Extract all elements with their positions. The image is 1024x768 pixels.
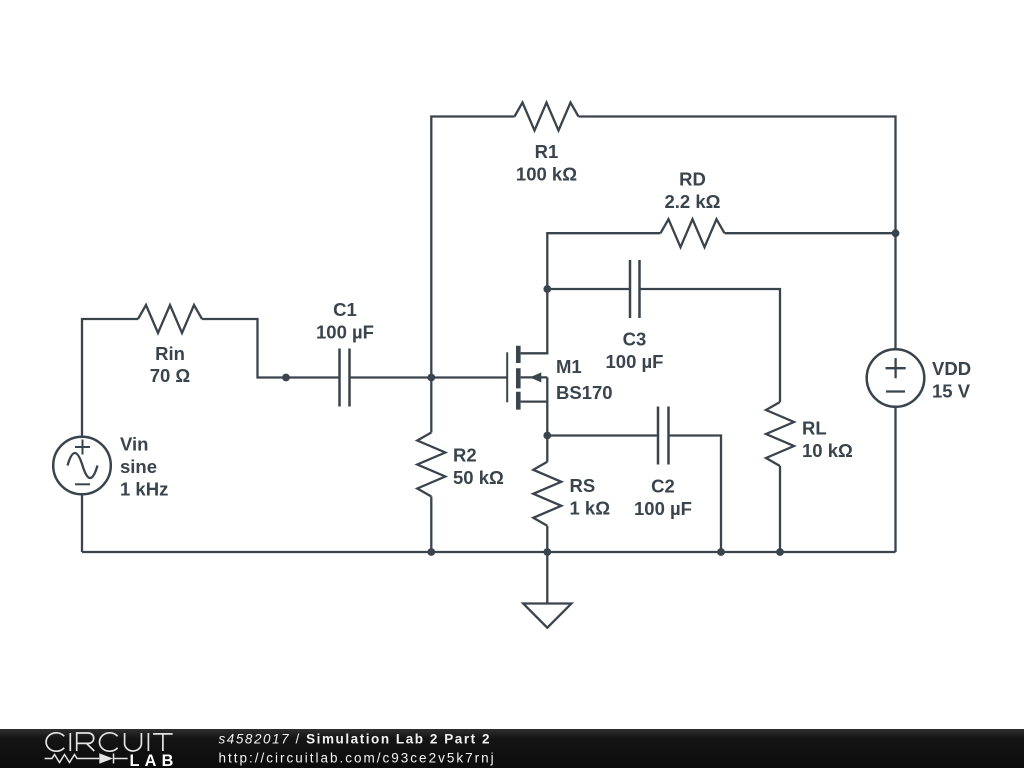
- logo diode triangle: [99, 753, 113, 763]
- transistor M1 body lead: [521, 376, 548, 378]
- svg-text:100 µF: 100 µF: [316, 322, 374, 343]
- Vin sine: [68, 453, 98, 478]
- ground triangle: [523, 604, 571, 628]
- voltage source VDD circle: [867, 349, 925, 407]
- capacitor C2: [658, 407, 669, 465]
- svg-text:Vin: Vin: [120, 434, 148, 455]
- node dot bottom R2: [427, 548, 435, 556]
- svg-text:2.2 kΩ: 2.2 kΩ: [665, 191, 721, 212]
- resistor R2: [417, 433, 445, 497]
- wire right column RD node to VDD: [894, 233, 896, 349]
- node dot C3 left: [543, 285, 551, 293]
- svg-text:C3: C3: [623, 329, 647, 350]
- wire C2 right down to bottom: [669, 436, 722, 553]
- wire source node to C2: [547, 434, 658, 436]
- svg-text:RD: RD: [679, 169, 706, 190]
- svg-text:sine: sine: [120, 456, 157, 477]
- wire RD right lead: [725, 232, 896, 234]
- svg-text:BS170: BS170: [556, 382, 613, 403]
- svg-text:100 µF: 100 µF: [634, 498, 692, 519]
- svg-text:C1: C1: [333, 299, 357, 320]
- svg-text:VDD: VDD: [932, 358, 971, 379]
- svg-text:50 kΩ: 50 kΩ: [453, 467, 504, 488]
- Vin plus: [75, 440, 90, 455]
- wire Rin left column top: [82, 319, 138, 437]
- resistor RS: [533, 462, 561, 526]
- wire C3 right to RL top: [640, 289, 781, 402]
- transistor M1 arrow: [530, 372, 542, 382]
- wire RS bottom lead: [546, 526, 548, 552]
- svg-text:RL: RL: [802, 418, 827, 439]
- wire C3 left lead: [547, 288, 630, 290]
- svg-text:1 kΩ: 1 kΩ: [570, 498, 611, 519]
- node dot source: [543, 432, 551, 440]
- node dot bottom RL: [776, 548, 784, 556]
- wire gate row to MOSFET gate: [350, 376, 508, 378]
- wire top-left branch: gate node up to R1 row: [431, 117, 514, 378]
- resistor R1: [515, 103, 579, 131]
- transistor M1 channel bars: [516, 346, 521, 410]
- wire RL bottom: [779, 466, 781, 552]
- resistor RD: [661, 219, 725, 247]
- svg-text:10 kΩ: 10 kΩ: [802, 440, 853, 461]
- svg-text:R2: R2: [453, 445, 477, 466]
- svg-text:15 V: 15 V: [932, 381, 971, 402]
- svg-text:R1: R1: [535, 141, 559, 162]
- node dot bottom RS: [543, 548, 551, 556]
- svg-text:100 kΩ: 100 kΩ: [516, 163, 577, 184]
- VDD plus: [886, 358, 906, 378]
- node dot RD right: [892, 229, 900, 237]
- wire bottom rail: [82, 551, 896, 553]
- svg-text:RS: RS: [570, 475, 596, 496]
- node dot gate row branch: [427, 374, 435, 382]
- wire RD left down to C3 node: [547, 233, 660, 289]
- wire Rin right jog down to gate row: [202, 319, 340, 378]
- wire branch column down to R2: [430, 378, 432, 433]
- ground stem: [546, 552, 548, 604]
- svg-text:LAB: LAB: [130, 752, 179, 768]
- wire RS top lead: [546, 436, 548, 462]
- wire R2 bottom: [430, 497, 432, 553]
- wire R1 right to right column: [579, 117, 896, 234]
- svg-text:C2: C2: [651, 476, 675, 497]
- logo resistor-diode line: [45, 754, 128, 764]
- resistor RL: [766, 402, 794, 466]
- capacitor C1: [340, 349, 350, 407]
- transistor Q M1 gate pole: [506, 352, 508, 402]
- svg-text:s4582017 / Simulation Lab 2 Pa: s4582017 / Simulation Lab 2 Part 2: [219, 732, 492, 747]
- capacitor C3: [630, 260, 640, 318]
- resistor Rin: [138, 305, 202, 333]
- transistor M1 drain lead: [521, 289, 548, 353]
- voltage source Vin circle: [53, 437, 111, 495]
- VDD minus: [886, 390, 905, 392]
- svg-text:Rin: Rin: [155, 343, 185, 364]
- svg-text:M1: M1: [556, 356, 582, 377]
- node dot gate row left: [282, 374, 290, 382]
- svg-text:1 kHz: 1 kHz: [120, 479, 168, 500]
- wire VDD bottom: [894, 407, 896, 552]
- wire Vin bottom: [81, 494, 83, 552]
- logo CIRCUIT letters: [46, 733, 173, 751]
- svg-text:100 µF: 100 µF: [606, 351, 664, 372]
- transistor M1 source lead: [521, 377, 548, 435]
- svg-text:70 Ω: 70 Ω: [150, 365, 191, 386]
- Vin minus: [75, 483, 90, 485]
- footer bar: [0, 729, 1024, 768]
- svg-text:http://circuitlab.com/c93ce2v5: http://circuitlab.com/c93ce2v5k7rnj: [219, 750, 496, 765]
- node dot bottom C2: [717, 548, 725, 556]
